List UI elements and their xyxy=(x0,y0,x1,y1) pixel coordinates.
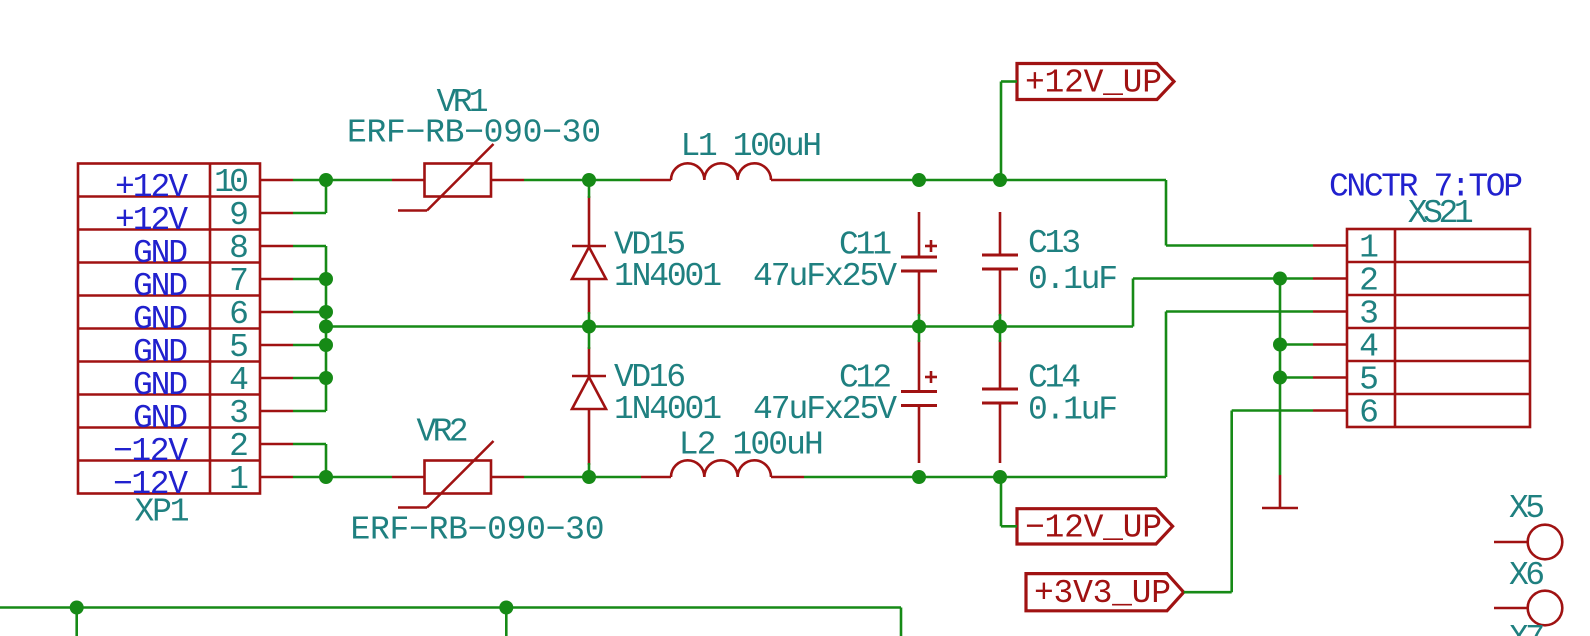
junction +12V node xyxy=(319,173,333,187)
XP1 pin 1 stub xyxy=(260,476,293,479)
svg-text:ERF−RB−090−30: ERF−RB−090−30 xyxy=(347,115,601,152)
wire L1 to C11 xyxy=(800,179,919,182)
wire +3V3 riser xyxy=(1230,411,1233,593)
wire -12V riser to pin3 xyxy=(1165,312,1168,478)
inductor L1 xyxy=(671,163,771,180)
wire pin4 xyxy=(293,377,326,380)
VD15 bottom wire xyxy=(588,312,591,327)
VD16 top wire xyxy=(588,327,591,350)
svg-text:ERF−RB−090−30: ERF−RB−090−30 xyxy=(351,512,605,549)
svg-text:2: 2 xyxy=(229,428,249,465)
svg-text:1: 1 xyxy=(1359,230,1379,267)
svg-text:+12V: +12V xyxy=(115,202,188,239)
junction C13 bottom xyxy=(993,320,1007,334)
wire to XS21 pin6 xyxy=(1232,409,1313,412)
wire to XS21 pin3 xyxy=(1166,310,1313,313)
wire pin6 xyxy=(293,311,326,314)
C14 top wire xyxy=(999,327,1002,343)
L1 right pin xyxy=(771,179,800,182)
wire to XS21 pin4 xyxy=(1280,343,1313,346)
wire +3V3_UP stub xyxy=(1184,591,1232,594)
junction GND rail tap xyxy=(319,320,333,334)
XS21 pin 2 stub xyxy=(1313,277,1347,280)
C12 top wire xyxy=(918,327,921,343)
svg-text:XP1: XP1 xyxy=(135,494,190,531)
svg-text:5: 5 xyxy=(229,329,249,366)
svg-text:GND: GND xyxy=(133,400,188,437)
XS21 pin 3 stub xyxy=(1313,310,1347,313)
svg-text:L1 100uH: L1 100uH xyxy=(681,128,823,165)
svg-text:GND: GND xyxy=(133,367,188,404)
svg-text:5: 5 xyxy=(1359,362,1379,399)
svg-text:1: 1 xyxy=(229,461,249,498)
wire bottom drop middle xyxy=(505,608,508,636)
svg-text:7: 7 xyxy=(229,263,249,300)
junction VD15 anode to GND rail xyxy=(582,320,596,334)
svg-text:0.1uF: 0.1uF xyxy=(1028,261,1118,298)
wire pin9 xyxy=(293,212,326,215)
wire node to L2 xyxy=(589,476,641,479)
svg-text:0.1uF: 0.1uF xyxy=(1028,392,1118,429)
svg-text:4: 4 xyxy=(229,362,249,399)
varistor VR2 xyxy=(392,441,524,508)
VD15 top wire xyxy=(588,180,591,198)
wire pin5 xyxy=(293,344,326,347)
svg-text:VR2: VR2 xyxy=(417,414,469,451)
junction C14 bottom xyxy=(993,470,1007,484)
wire -12V pin1 to VR2 xyxy=(293,476,392,479)
wire GND bus vertical at XS21 xyxy=(1279,279,1282,476)
connector XP1 body xyxy=(78,164,260,494)
svg-text:3: 3 xyxy=(229,395,249,432)
junction XS21 pin5 GND xyxy=(1273,371,1287,385)
junction GND pin7 xyxy=(319,272,333,286)
svg-text:+3V3_UP: +3V3_UP xyxy=(1034,575,1171,612)
junction VD15 top xyxy=(582,173,596,187)
capacitor C11 xyxy=(901,212,937,316)
C11 bottom wire xyxy=(918,314,921,327)
svg-text:X6: X6 xyxy=(1509,557,1545,594)
svg-text:4: 4 xyxy=(1359,329,1379,366)
XP1 pin 10 stub xyxy=(260,179,293,182)
inductor L2 xyxy=(671,460,771,477)
svg-text:XS21: XS21 xyxy=(1408,195,1474,232)
wire bottom rail drop right xyxy=(900,608,903,636)
wire +12V drop to pin1 xyxy=(1165,180,1168,246)
wire to XS21 pin5 xyxy=(1280,376,1313,379)
wire pin2 xyxy=(293,443,326,446)
svg-text:3: 3 xyxy=(1359,296,1379,333)
XP1 pin 6 stub xyxy=(260,311,293,314)
svg-text:9: 9 xyxy=(229,197,249,234)
svg-text:+12V_UP: +12V_UP xyxy=(1025,65,1162,102)
svg-text:C13: C13 xyxy=(1028,225,1081,262)
wire pin7 xyxy=(293,278,326,281)
L2 right pin xyxy=(771,476,804,479)
junction -12V node xyxy=(319,470,333,484)
wire +12V to XS21 branch xyxy=(1000,179,1166,182)
XP1 pin 3 stub xyxy=(260,410,293,413)
svg-text:−12V_UP: −12V_UP xyxy=(1025,509,1162,546)
junction VD16 anode xyxy=(582,470,596,484)
diode VD16 xyxy=(572,347,606,465)
svg-text:2: 2 xyxy=(1359,263,1379,300)
junction C11 top xyxy=(912,173,926,187)
XP1 pin 8 stub xyxy=(260,245,293,248)
svg-text:GND: GND xyxy=(133,334,188,371)
wire bottom drop left xyxy=(75,608,78,636)
L1 left pin xyxy=(640,179,671,182)
wire pin9 riser xyxy=(325,180,328,213)
wire +12V_UP stub xyxy=(1001,80,1017,83)
capacitor C13 xyxy=(982,212,1018,316)
junction bottom rail middle xyxy=(499,601,513,615)
wire GND rail horizontal xyxy=(326,325,1133,328)
ground symbol xyxy=(1262,475,1298,508)
wire -12V to XS21 branch xyxy=(1000,476,1166,479)
svg-text:1N4001: 1N4001 xyxy=(614,391,722,428)
XS21 pin 4 stub xyxy=(1313,343,1347,346)
wire node to L1 xyxy=(589,179,640,182)
wire GND to XS21 pin2 xyxy=(1133,277,1313,280)
wire -12V_UP drop xyxy=(1000,477,1003,526)
svg-text:GND: GND xyxy=(133,268,188,305)
junction GND pin4 xyxy=(319,371,333,385)
svg-text:6: 6 xyxy=(1359,395,1379,432)
capacitor C12 xyxy=(901,340,937,463)
wire pin8 xyxy=(293,245,326,248)
C13 bottom wire xyxy=(999,314,1002,327)
junction GND pin6 xyxy=(319,305,333,319)
junction XS21 pin2 GND xyxy=(1273,272,1287,286)
XP1 pin 4 stub xyxy=(260,377,293,380)
wire pin2 riser xyxy=(325,444,328,477)
svg-text:8: 8 xyxy=(229,230,249,267)
global label -12V_UP xyxy=(1017,509,1173,544)
XS21 pin 1 stub xyxy=(1313,244,1347,247)
junction XS21 pin4 GND xyxy=(1273,338,1287,352)
wire C11 to C13 xyxy=(919,179,1000,182)
VD16 bottom wire xyxy=(588,463,591,477)
wire pin3 xyxy=(293,410,326,413)
XS21 pin 6 stub xyxy=(1313,409,1347,412)
junction C11 bottom xyxy=(912,320,926,334)
XP1 pin 7 stub xyxy=(260,278,293,281)
svg-text:47uFx25V: 47uFx25V xyxy=(753,258,897,295)
wire L2 to C12 xyxy=(804,476,919,479)
connector pin X5 xyxy=(1494,541,1528,544)
wire to XS21 pin1 xyxy=(1166,244,1313,247)
L2 left pin xyxy=(641,476,671,479)
XP1 pin 2 stub xyxy=(260,443,293,446)
svg-text:1N4001: 1N4001 xyxy=(614,258,722,295)
svg-text:GND: GND xyxy=(133,235,188,272)
junction C12 bottom xyxy=(912,470,926,484)
junction C13 top xyxy=(993,173,1007,187)
wire VR2 to node xyxy=(524,476,589,479)
connector XS21 body xyxy=(1347,229,1530,427)
wire +12V_UP drop xyxy=(1000,82,1003,181)
wire VR1 to node xyxy=(524,179,589,182)
svg-text:GND: GND xyxy=(133,301,188,338)
diode VD15 xyxy=(572,196,606,314)
svg-text:X7: X7 xyxy=(1509,620,1545,636)
connector pin X6 xyxy=(1494,607,1528,610)
XS21 pin 5 stub xyxy=(1313,376,1347,379)
wire -12V_UP stub xyxy=(1001,525,1017,528)
svg-text:47uFx25V: 47uFx25V xyxy=(753,391,897,428)
varistor VR1 xyxy=(392,144,524,211)
junction GND pin5 xyxy=(319,338,333,352)
global label +12V_UP xyxy=(1017,64,1174,100)
svg-text:L2 100uH: L2 100uH xyxy=(679,427,824,464)
wire bottom rail xyxy=(0,606,901,609)
svg-text:6: 6 xyxy=(229,296,249,333)
XP1 pin 9 stub xyxy=(260,212,293,215)
global label +3V3_UP xyxy=(1026,574,1184,611)
svg-text:+12V: +12V xyxy=(115,169,188,206)
wire GND bus vertical xyxy=(325,246,328,411)
wire C12 to C14 xyxy=(919,476,1000,479)
svg-text:0: 0 xyxy=(229,164,249,201)
wire +12V pin10 to VR1 xyxy=(293,179,392,182)
svg-text:X5: X5 xyxy=(1509,490,1545,527)
capacitor C14 xyxy=(982,340,1018,463)
XP1 pin 5 stub xyxy=(260,344,293,347)
wire GND rail riser xyxy=(1132,279,1135,327)
junction bottom rail left xyxy=(70,601,84,615)
svg-text:−12V: −12V xyxy=(113,433,188,470)
